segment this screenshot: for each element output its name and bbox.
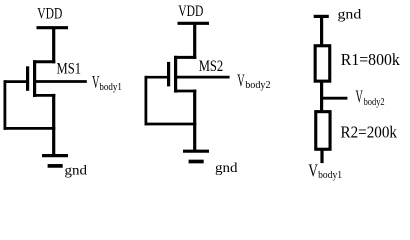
wire gate loop left vertical MS1	[4, 80, 7, 130]
wire source vertical MS1	[52, 94, 55, 156]
transistor MS2 gate bar	[167, 62, 170, 87]
svg-text:gnd: gnd	[338, 7, 362, 22]
transistor MS2 channel bar	[174, 56, 177, 93]
svg-text:MS2: MS2	[199, 58, 224, 75]
wire gate loop bottom MS1	[4, 127, 56, 130]
gnd terminal bar (resistor string)	[314, 15, 329, 18]
svg-text:R1=800k: R1=800k	[341, 50, 401, 69]
wire R1 to R2	[320, 81, 323, 112]
svg-text:gnd: gnd	[65, 163, 88, 178]
wire body lead MS1	[33, 80, 87, 83]
wire body lead MS2	[174, 76, 230, 79]
svg-text:body1: body1	[99, 82, 122, 93]
svg-text:body2: body2	[245, 80, 270, 91]
ground bar 2 MS1	[48, 164, 63, 168]
svg-text:R2=200k: R2=200k	[341, 122, 398, 141]
svg-text:V: V	[308, 161, 318, 181]
resistor R1 body	[315, 46, 330, 81]
wire R2 to V_body1 terminal	[320, 150, 323, 164]
svg-text:VDD: VDD	[178, 3, 203, 20]
svg-text:V: V	[356, 86, 364, 106]
wire source horizontal MS1	[33, 94, 55, 97]
wire gnd to R1	[320, 16, 323, 45]
VDD rail (MS2)	[178, 22, 210, 25]
wire gate lead MS1	[5, 80, 28, 83]
wire source horizontal MS2	[174, 90, 196, 93]
svg-text:body2: body2	[364, 97, 385, 108]
VDD rail (MS1)	[37, 26, 69, 29]
svg-text:body1: body1	[318, 170, 342, 181]
ground bar 1 MS1	[42, 154, 68, 157]
svg-text:MS1: MS1	[57, 61, 82, 78]
wire gate loop bottom MS2	[145, 123, 197, 126]
svg-text:gnd: gnd	[215, 161, 238, 176]
ground bar 2 MS2	[189, 160, 204, 164]
wire source vertical MS2	[193, 90, 196, 152]
ground bar 1 MS2	[183, 150, 209, 153]
wire drain vertical MS2	[193, 23, 196, 59]
svg-text:V: V	[237, 70, 245, 90]
wire drain horizontal MS2	[174, 56, 196, 59]
resistor R2 body	[316, 112, 330, 150]
wire drain vertical MS1	[52, 28, 55, 64]
wire gate loop left vertical MS2	[144, 76, 147, 126]
transistor MS1 gate bar	[26, 66, 29, 91]
wire node V_body2 lead	[322, 97, 348, 100]
wire drain horizontal MS1	[33, 60, 55, 63]
wire gate lead MS2	[146, 76, 169, 79]
transistor MS1 channel bar	[33, 60, 36, 97]
svg-text:VDD: VDD	[37, 6, 62, 23]
